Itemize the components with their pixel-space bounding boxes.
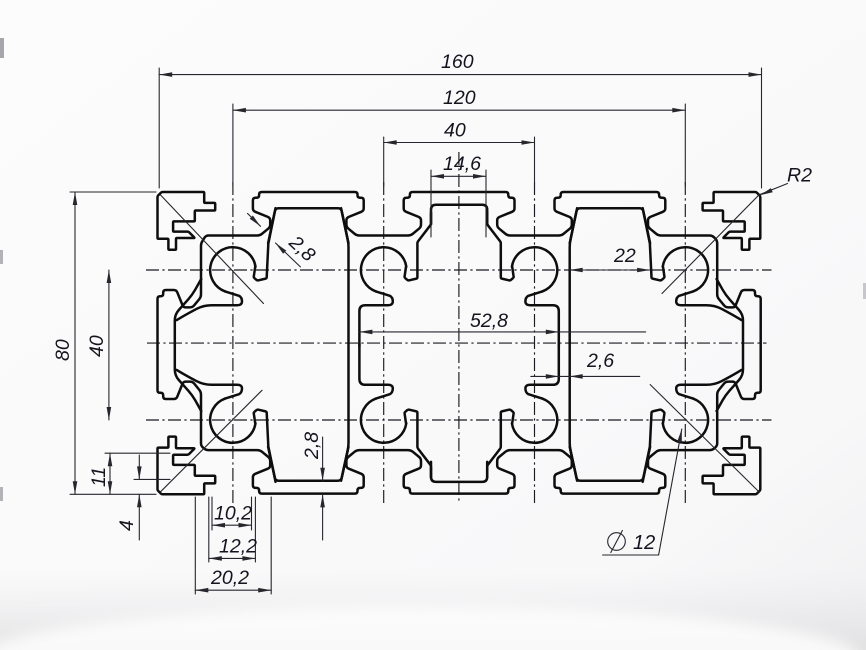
svg-text:160: 160 xyxy=(441,51,474,73)
dimension 160 extension lines xyxy=(159,68,761,188)
dimension 4 extension line xyxy=(134,478,170,480)
svg-text:12: 12 xyxy=(633,532,655,554)
dimension 2,8 slot wall xyxy=(248,213,320,267)
dimension 120 xyxy=(233,87,685,113)
bottom flange underside right xyxy=(570,447,650,481)
dimension 160 xyxy=(159,51,761,77)
dimension 40 top xyxy=(384,120,535,145)
svg-text:80: 80 xyxy=(52,339,74,361)
dimension 2,6 xyxy=(531,350,640,379)
bore hole B1 (20,60) xyxy=(177,370,276,482)
dimension 11 xyxy=(88,453,112,494)
bore hole A4 (140,20) xyxy=(643,208,742,320)
dimension 12,2 xyxy=(209,536,257,561)
dimension 10,2 extension lines xyxy=(212,497,252,530)
web wall right column xyxy=(570,208,577,481)
svg-text:40: 40 xyxy=(86,335,108,357)
dimension 40 left xyxy=(86,270,111,420)
svg-text:2,8: 2,8 xyxy=(301,432,323,460)
bore hole B4 (140,60) xyxy=(643,370,742,482)
radius callout R2 xyxy=(662,165,812,294)
svg-text:11: 11 xyxy=(88,467,110,487)
dimension 52,8 xyxy=(359,310,645,334)
centerline vertical middle xyxy=(458,152,460,502)
corner block bottom-right xyxy=(703,437,761,495)
svg-text:52,8: 52,8 xyxy=(470,310,508,332)
dimension 80 extension lines xyxy=(70,192,156,494)
corner diagonal top-left xyxy=(160,195,263,304)
bore hole B3 (100,60) xyxy=(487,344,559,478)
svg-text:40: 40 xyxy=(444,120,466,142)
dimension 11 extension line xyxy=(105,452,170,454)
center cell top walls xyxy=(431,205,487,225)
corner diagonal bottom-right xyxy=(650,385,759,493)
centerline column 20 xyxy=(232,182,234,503)
dimension 40 top extension lines xyxy=(384,137,535,186)
dimension 120 extension lines xyxy=(233,104,685,186)
bottom flange underside left xyxy=(268,447,348,481)
svg-text:14,6: 14,6 xyxy=(443,153,481,175)
top flange underside left xyxy=(268,208,348,243)
svg-text:2,6: 2,6 xyxy=(586,350,614,372)
svg-text:20,2: 20,2 xyxy=(210,567,249,589)
svg-text:10,2: 10,2 xyxy=(214,503,252,525)
centerline row 60 xyxy=(146,419,772,421)
left edge inner wall xyxy=(175,279,201,411)
centerline column 100 xyxy=(534,182,536,503)
bore hole B2 (60,60) xyxy=(359,344,431,478)
web wall left column xyxy=(341,208,348,481)
corner block top-left xyxy=(158,192,216,250)
dimension 10,2 xyxy=(212,503,252,528)
dimension 2,8 bottom flange xyxy=(301,432,325,540)
top flange underside right xyxy=(570,208,650,243)
diameter callout 12 xyxy=(603,429,682,555)
svg-text:R2: R2 xyxy=(787,165,812,187)
corner diagonal bottom-left xyxy=(161,390,263,492)
profile outer boundary xyxy=(158,192,761,494)
bore hole A1 (20,20) xyxy=(177,208,276,320)
right edge inner wall xyxy=(717,279,743,411)
dimension 20,2 extension lines xyxy=(195,497,271,594)
svg-text:4: 4 xyxy=(116,520,138,531)
dimension 12,2 extension lines xyxy=(209,497,256,562)
dimension 22 xyxy=(570,245,650,272)
corner block top-right xyxy=(703,192,761,250)
centerline column 140 xyxy=(684,182,686,503)
centerline column 60 xyxy=(383,182,385,503)
svg-text:22: 22 xyxy=(613,245,636,267)
corner block bottom-left xyxy=(158,437,216,495)
bore hole A2 (60,20) xyxy=(359,213,431,347)
dimension 20,2 xyxy=(195,567,271,593)
bore hole A3 (100,20) xyxy=(487,213,559,347)
dimension 14,6 extension lines xyxy=(431,170,486,237)
dimension 14,6 xyxy=(431,153,486,179)
centerline horizontal middle xyxy=(147,342,767,344)
svg-text:120: 120 xyxy=(443,87,476,109)
dimension 80 xyxy=(52,192,77,494)
dimension 4 xyxy=(116,455,142,540)
centerline row 20 xyxy=(146,269,772,271)
center cell bottom walls xyxy=(431,462,487,482)
svg-text:12,2: 12,2 xyxy=(219,536,257,558)
